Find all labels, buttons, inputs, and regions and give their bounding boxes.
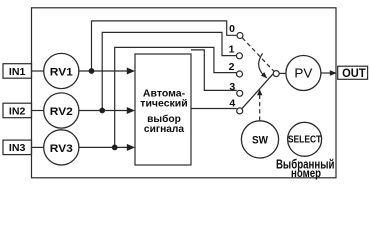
switch contact 1 [236,53,242,59]
selector block [135,54,191,165]
svg-text:номер: номер [291,168,321,180]
arrowhead into OUT [330,70,337,76]
switch wiper arm at position 4 [242,74,273,109]
remote variable circle RV2 [44,93,79,128]
svg-text:SW: SW [252,134,269,146]
svg-text:3: 3 [229,81,235,93]
dashed wiper alternate position 0 [242,38,274,72]
svg-text:IN2: IN2 [9,106,26,117]
wire node RV2 to contact 1 [102,32,236,110]
PV circle [286,56,321,91]
input terminal IN1 [3,64,32,78]
switch contact 3 [237,90,243,96]
switch knob SW [241,121,278,158]
wire IN3 to RV3 [32,146,44,148]
junction node after RV1 [89,68,95,74]
svg-text:IN1: IN1 [9,67,26,78]
svg-text:0: 0 [229,23,235,35]
arrowhead into selector box from RV2 [127,107,135,114]
remote variable circle RV3 [44,130,79,165]
wire RV3 to selector box [79,146,130,148]
svg-text:выбор: выбор [147,113,181,125]
arrowhead into selector box from RV1 [127,68,135,75]
switch contact 0 [237,33,243,39]
output terminal OUT [338,66,368,79]
caption selected number [276,157,335,179]
rotation arc arrow [259,53,265,76]
svg-text:тический: тический [140,98,187,110]
svg-text:RV1: RV1 [50,67,73,79]
svg-text:RV2: RV2 [50,106,73,118]
wire IN1 to RV1 [32,70,44,72]
input terminal IN2 [3,103,32,118]
input terminal IN3 [3,140,32,155]
wire RV2 to selector box [79,110,130,112]
SELECT key circle [288,122,322,156]
wire RV1 to selector box [79,70,130,72]
arrowhead of SW control line [257,89,262,95]
switch wiper pivot [273,71,279,77]
arrowhead of rotation arc [261,72,267,78]
dashed control line SW to wiper [259,95,261,121]
svg-text:RV3: RV3 [50,143,73,155]
svg-text:2: 2 [229,61,235,73]
wire pivot to PV [279,72,286,74]
wire node RV3 to contact 2 [115,47,237,147]
switch contact 4 [237,108,243,114]
svg-text:IN3: IN3 [9,143,26,154]
wire selector box to contact 4 [191,108,237,110]
wire selector box to contact 3 [191,50,237,91]
remote variable circle RV1 [44,53,79,88]
svg-text:сигнала: сигнала [144,124,184,135]
svg-text:SELECT: SELECT [288,135,322,146]
svg-text:OUT: OUT [342,66,366,80]
svg-text:1: 1 [229,43,235,55]
switch contact 2 [237,71,243,77]
wire node RV1 to contact 0 [92,21,237,71]
junction node after RV3 [112,145,118,151]
wire PV to OUT [321,72,331,74]
system boundary box [32,8,337,178]
svg-text:4: 4 [229,98,235,110]
selector block caption [140,87,187,135]
junction node after RV2 [99,108,105,114]
arrowhead into selector box from RV3 [127,144,135,151]
svg-text:PV: PV [294,66,313,80]
wire IN2 to RV2 [32,110,44,112]
